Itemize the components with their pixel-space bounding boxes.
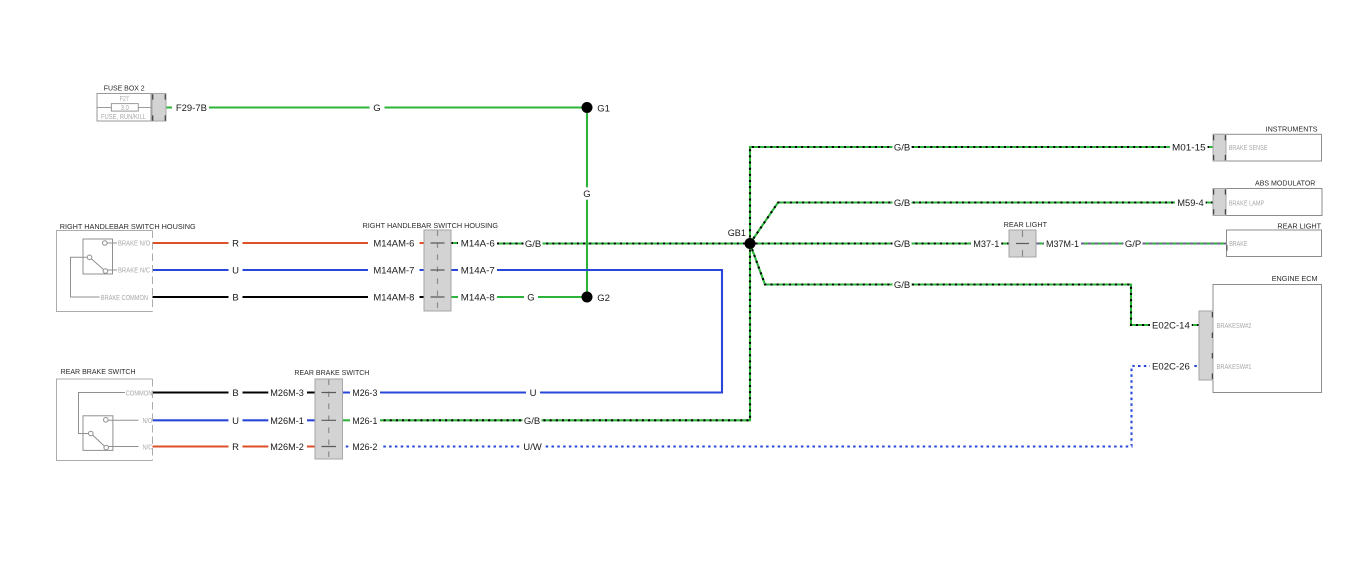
wire G/B node GB1 up to M01-15 INSTRUMENTS	[750, 147, 1213, 244]
label M01-15	[1170, 141, 1208, 154]
wire U N/O to M26M-1	[153, 419, 316, 421]
rear light box	[1227, 230, 1322, 257]
label U m26-3 run	[526, 386, 540, 399]
wire stub M26-1	[343, 419, 351, 421]
engine ecm connector pins E02C	[1199, 311, 1213, 380]
svg-text:G: G	[583, 189, 590, 200]
label M14A-6	[459, 237, 497, 250]
label M26-2	[350, 440, 379, 453]
label M26M-1	[268, 414, 306, 427]
wire R BRAKE N/O to M14AM-6	[153, 242, 425, 244]
wire U/W M26-2 to E02C-26 ENGINE ECM	[343, 366, 1200, 447]
wire G/B node GB1 to M59-4 ABS MODULATOR	[750, 203, 1213, 244]
label M26-1	[350, 414, 379, 427]
label E02C-26	[1150, 360, 1192, 373]
wire F29-7B green fuse box to node G1	[166, 106, 587, 108]
svg-text:G: G	[373, 103, 380, 114]
svg-text:M59-4: M59-4	[1177, 198, 1203, 209]
svg-text:N/O: N/O	[143, 418, 153, 425]
svg-text:BRAKESW#1: BRAKESW#1	[1217, 362, 1252, 371]
label E02C-14	[1150, 319, 1192, 332]
brake switch symbol (handlebar)	[71, 239, 151, 302]
brake switch symbol (rear)	[79, 390, 153, 451]
label M37M-1	[1044, 237, 1081, 250]
label G/B ecm branch	[893, 278, 912, 291]
label M59-4	[1175, 196, 1205, 209]
svg-text:M26M-3: M26M-3	[270, 388, 304, 399]
label M14AM-7	[371, 264, 416, 277]
instruments title	[1266, 124, 1318, 133]
label M14A-7	[459, 264, 497, 277]
svg-text:F27: F27	[120, 94, 129, 103]
wire G/B node GB1 to M37-1	[756, 242, 1010, 244]
connector M26 title	[294, 368, 369, 377]
label G on vertical ground wire	[580, 187, 594, 200]
svg-text:M14A-6: M14A-6	[461, 239, 495, 250]
svg-text:U/W: U/W	[523, 442, 542, 453]
svg-text:G/B: G/B	[894, 198, 910, 209]
svg-text:COMMON: COMMON	[126, 390, 153, 397]
label B wire colour	[229, 291, 243, 304]
svg-text:G/B: G/B	[525, 239, 541, 250]
label U rear wire colour	[229, 414, 243, 427]
svg-text:M37M-1: M37M-1	[1046, 239, 1079, 250]
label G wire colour row3	[524, 291, 538, 304]
svg-text:G/B: G/B	[894, 280, 910, 291]
svg-text:U: U	[232, 266, 239, 277]
svg-text:M14AM-7: M14AM-7	[373, 266, 414, 277]
svg-text:REAR BRAKE SWITCH: REAR BRAKE SWITCH	[294, 368, 369, 377]
abs connector pin M59-4	[1213, 189, 1226, 216]
label G/P wire colour	[1124, 237, 1143, 250]
svg-text:ENGINE ECM: ENGINE ECM	[1272, 274, 1318, 283]
label G on fuse wire	[370, 101, 385, 114]
svg-text:M26M-1: M26M-1	[270, 416, 304, 427]
svg-text:REAR LIGHT: REAR LIGHT	[1004, 220, 1048, 229]
label G/B abs branch	[893, 196, 912, 209]
wire R N/C to M26M-2	[153, 445, 316, 447]
svg-text:M26-2: M26-2	[352, 442, 377, 453]
svg-text:M26M-2: M26M-2	[270, 442, 304, 453]
label M26M-2	[268, 440, 306, 453]
node G2	[582, 292, 610, 304]
svg-text:M14AM-8: M14AM-8	[373, 293, 414, 304]
svg-text:BRAKE LAMP: BRAKE LAMP	[1229, 198, 1265, 207]
connector M37 rear light	[1009, 230, 1036, 257]
right handlebar switch housing box	[57, 231, 153, 312]
svg-text:N/C: N/C	[143, 444, 153, 451]
svg-text:RIGHT HANDLEBAR SWITCH HOUSING: RIGHT HANDLEBAR SWITCH HOUSING	[60, 222, 196, 231]
wire B COMMON to M26M-3	[153, 391, 316, 393]
node G1	[582, 102, 610, 114]
wire G M14A-8 to node G2	[451, 296, 587, 298]
wire G/P M37M-1 to REAR LIGHT BRAKE pin	[1036, 242, 1227, 244]
wire U BRAKE N/C to M14AM-7	[153, 269, 425, 271]
svg-text:E02C-26: E02C-26	[1152, 362, 1190, 373]
svg-text:M01-15: M01-15	[1172, 143, 1206, 154]
engine ecm title	[1272, 274, 1318, 283]
svg-text:BRAKE N/C: BRAKE N/C	[118, 266, 151, 275]
rear brake switch title	[61, 367, 136, 376]
label G/B rear light branch	[893, 237, 912, 250]
right handlebar switch housing title	[60, 222, 196, 231]
svg-text:B: B	[232, 293, 238, 304]
svg-text:G/P: G/P	[1125, 239, 1141, 250]
svg-text:G2: G2	[597, 293, 610, 304]
svg-text:B: B	[232, 388, 238, 399]
abs modulator title	[1255, 179, 1316, 188]
label M37-1	[971, 237, 1001, 250]
svg-text:M26-3: M26-3	[352, 388, 377, 399]
svg-text:FUSE, RUN/KILL: FUSE, RUN/KILL	[101, 112, 146, 121]
svg-text:GB1: GB1	[728, 228, 746, 239]
label M26-3	[350, 386, 379, 399]
svg-text:FUSE BOX 2: FUSE BOX 2	[104, 84, 145, 93]
wire B BRAKE COMMON to M14AM-8	[153, 296, 425, 298]
svg-text:BRAKE N/O: BRAKE N/O	[118, 239, 150, 248]
label M14A-8	[459, 291, 497, 304]
wire G/B node GB1 down to M26-1	[380, 244, 750, 421]
label R rear wire colour	[229, 440, 243, 453]
svg-text:U: U	[232, 416, 239, 427]
fuse box connector pin F29-7B	[152, 94, 166, 122]
svg-text:M26-1: M26-1	[352, 416, 377, 427]
svg-text:REAR BRAKE SWITCH: REAR BRAKE SWITCH	[61, 367, 136, 376]
svg-text:M14AM-6: M14AM-6	[373, 239, 414, 250]
svg-text:REAR LIGHT: REAR LIGHT	[1277, 222, 1321, 231]
svg-text:ABS MODULATOR: ABS MODULATOR	[1255, 179, 1316, 188]
label G/B instruments branch	[893, 141, 912, 154]
svg-text:G: G	[527, 293, 534, 304]
connector M14 title	[363, 221, 499, 230]
wire G/B M14A-6 to node GB1	[451, 242, 750, 245]
fuse box 2 title	[104, 84, 145, 93]
wire G/B node GB1 to E02C-14 ENGINE ECM	[750, 244, 1199, 326]
svg-text:G/B: G/B	[524, 416, 540, 427]
svg-text:F29-7B: F29-7B	[176, 103, 207, 114]
svg-text:U: U	[530, 388, 537, 399]
label M14AM-8	[371, 291, 416, 304]
abs modulator box	[1213, 189, 1322, 216]
svg-text:RIGHT HANDLEBAR SWITCH HOUSING: RIGHT HANDLEBAR SWITCH HOUSING	[363, 221, 499, 230]
label R wire colour	[229, 237, 243, 250]
svg-text:G/B: G/B	[894, 143, 910, 154]
wire G vertical node G1 to node G2	[586, 108, 588, 298]
connector M14 right handlebar switch housing	[424, 230, 451, 311]
svg-text:E02C-14: E02C-14	[1152, 321, 1190, 332]
rear light box title	[1277, 222, 1321, 231]
svg-text:M14A-7: M14A-7	[461, 266, 495, 277]
connector M37 title	[1004, 220, 1048, 229]
svg-text:M14A-8: M14A-8	[461, 293, 495, 304]
label U/W wire colour	[522, 440, 544, 453]
svg-text:BRAKE: BRAKE	[1229, 239, 1247, 248]
engine ecm box	[1213, 285, 1322, 393]
wire U M14A-7 to M26-3	[343, 270, 723, 393]
label M26M-3	[268, 386, 306, 399]
label B rear wire colour	[229, 386, 243, 399]
svg-text:R: R	[232, 239, 239, 250]
label F29-7B	[174, 101, 209, 114]
svg-text:BRAKE COMMON: BRAKE COMMON	[101, 293, 148, 302]
label G/B wire colour row1	[524, 237, 543, 250]
label M14AM-6	[371, 237, 416, 250]
svg-text:M37-1: M37-1	[973, 239, 999, 250]
svg-text:G/B: G/B	[894, 239, 910, 250]
svg-text:BRAKE SENSE: BRAKE SENSE	[1229, 143, 1268, 152]
instruments box	[1213, 134, 1322, 161]
label U wire colour	[229, 264, 243, 277]
connector M26 rear brake switch	[315, 379, 343, 459]
rear brake switch box	[57, 379, 153, 461]
instruments connector pin M01-15	[1213, 134, 1226, 161]
label G/B m26-1 run	[523, 414, 542, 427]
svg-text:BRAKESW#2: BRAKESW#2	[1217, 321, 1252, 330]
node GB1	[728, 228, 756, 249]
fuse box 2	[97, 94, 152, 122]
svg-text:INSTRUMENTS: INSTRUMENTS	[1266, 124, 1318, 133]
svg-text:G1: G1	[597, 103, 610, 114]
svg-text:R: R	[232, 442, 239, 453]
